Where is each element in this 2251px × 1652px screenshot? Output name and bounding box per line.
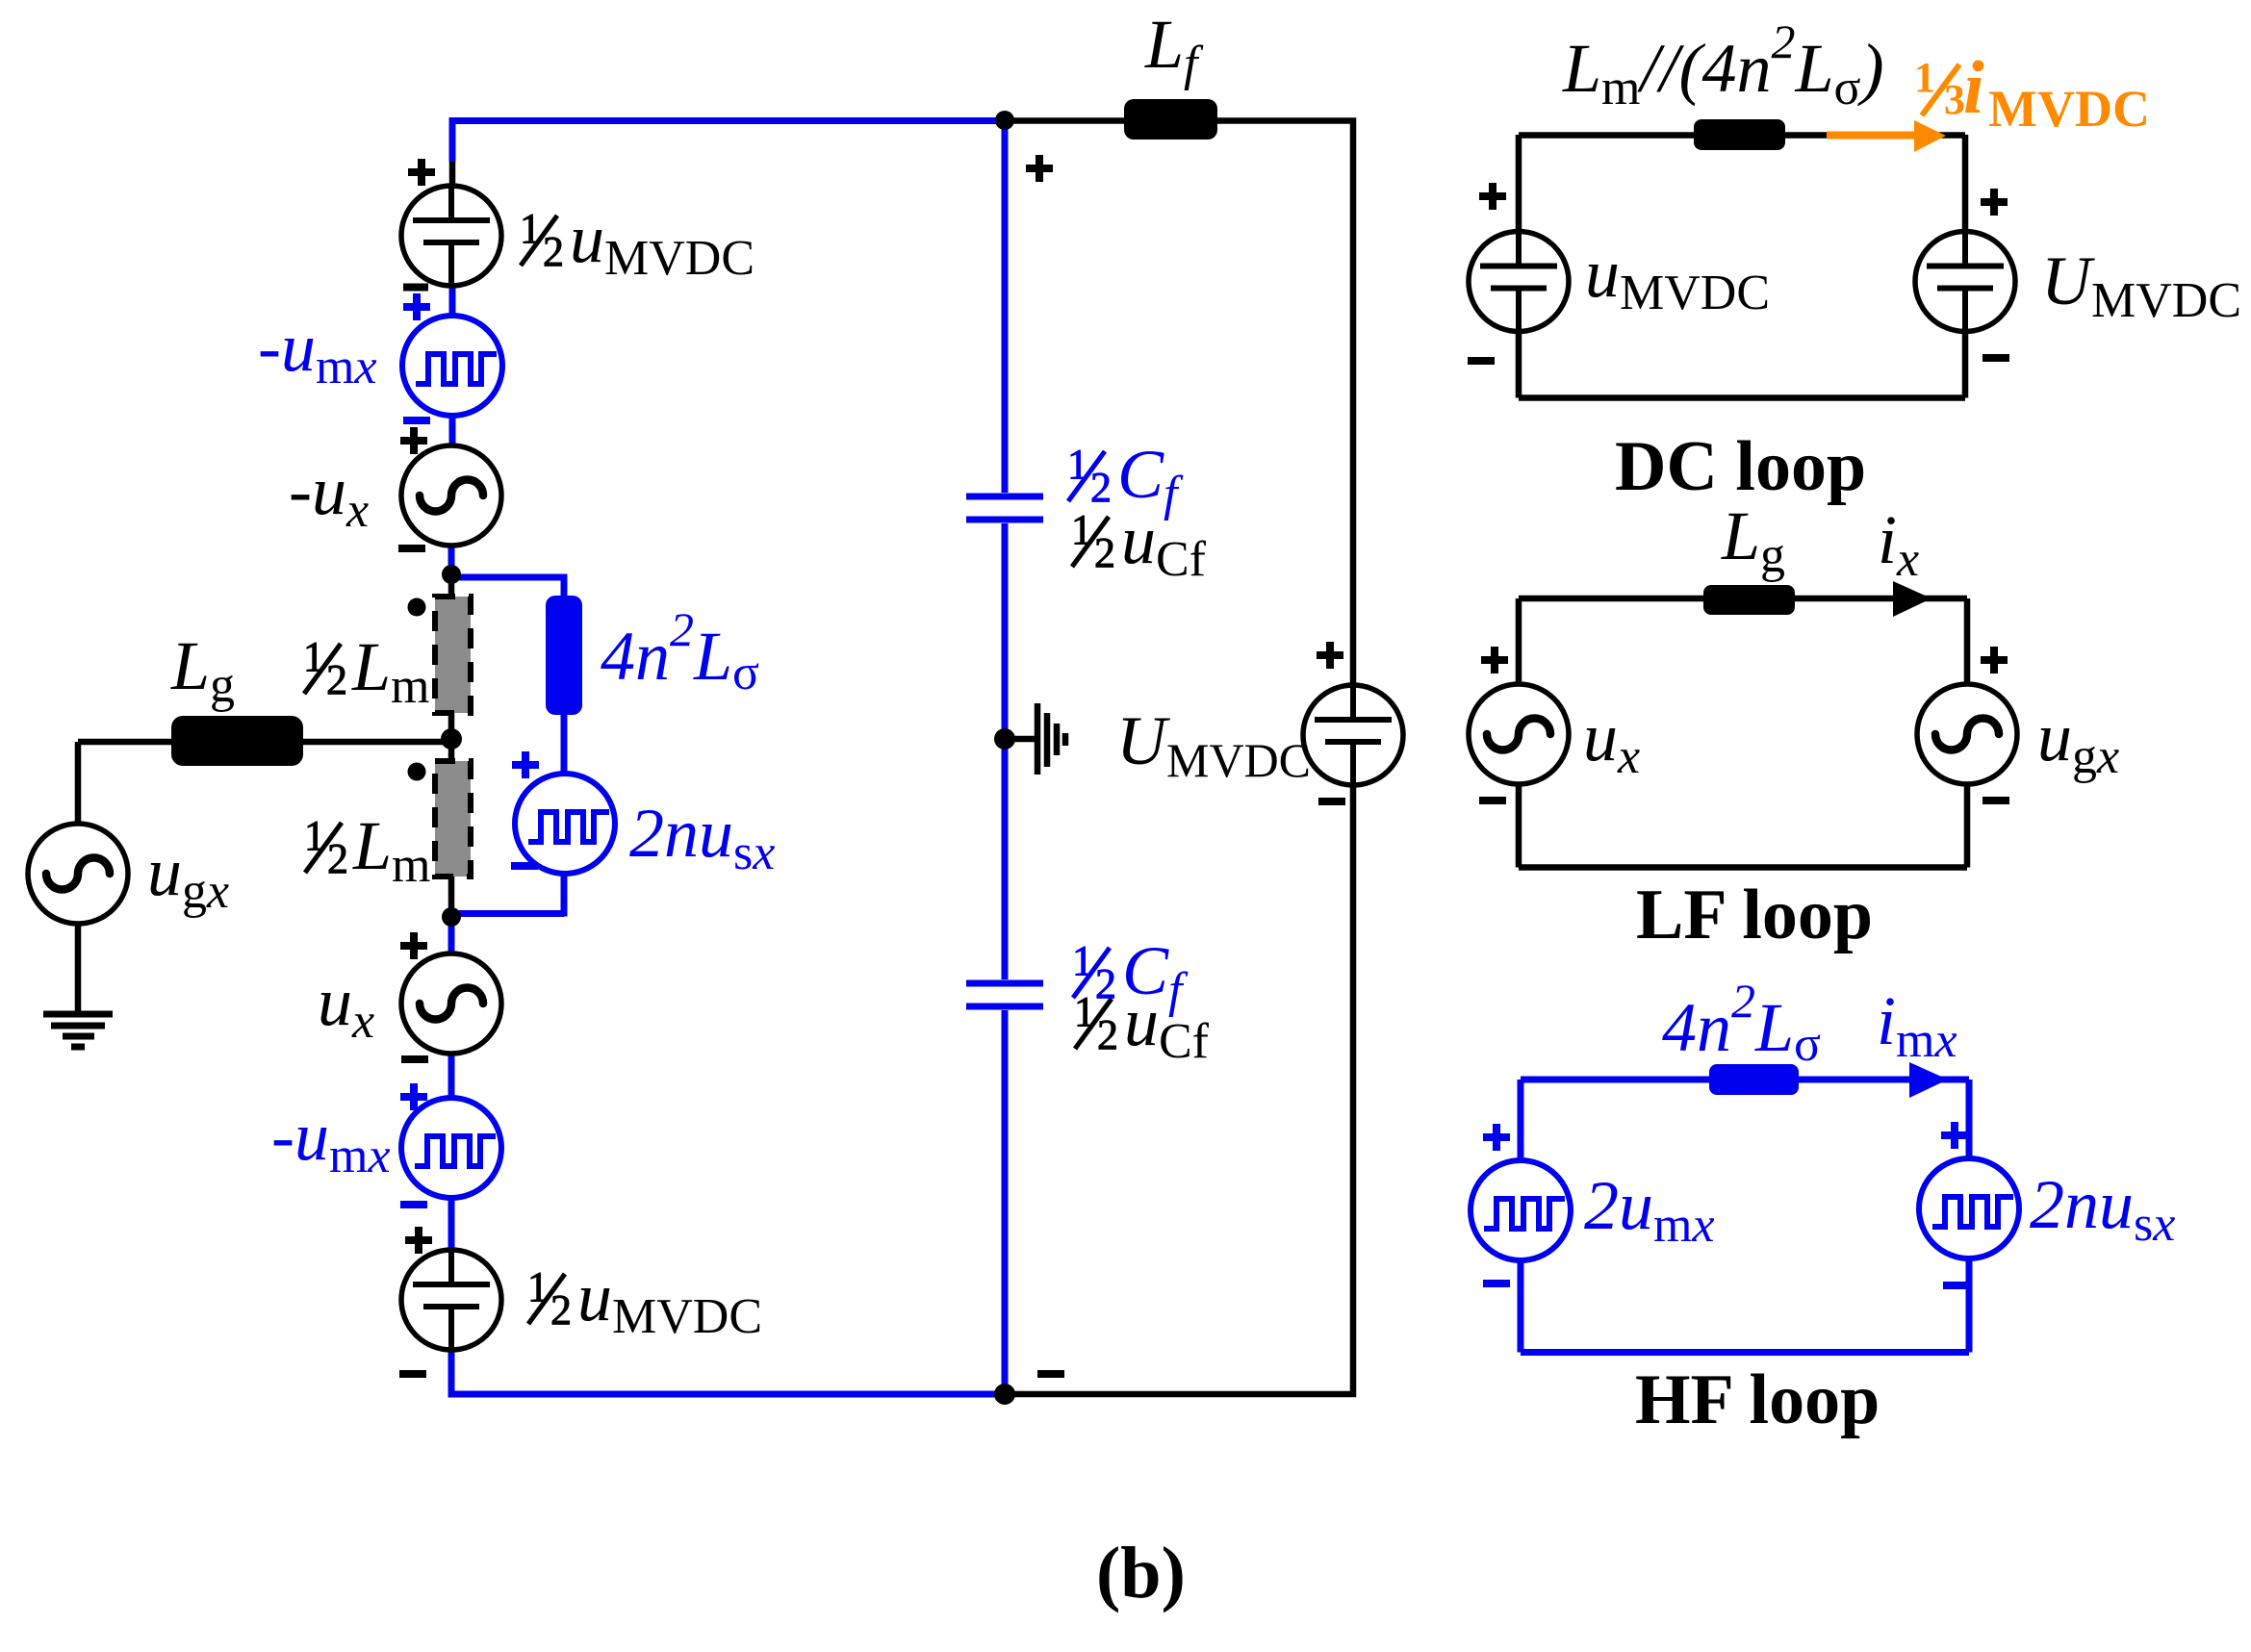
svg-text:2nusx: 2nusx [2030, 1166, 2175, 1252]
svg-text:-ux: -ux [289, 452, 369, 538]
svg-text:-umx: -umx [271, 1098, 391, 1183]
svg-text:4n2Lσ: 4n2Lσ [601, 602, 759, 700]
svg-text:Cf: Cf [1122, 932, 1189, 1018]
svg-text:uMVDC: uMVDC [570, 200, 755, 286]
svg-text:imx: imx [1877, 982, 1957, 1068]
svg-text:UMVDC: UMVDC [1116, 702, 1311, 787]
svg-text:HF loop: HF loop [1635, 1360, 1880, 1439]
svg-text:Lm//(4n2Lσ): Lm//(4n2Lσ) [1562, 14, 1884, 115]
svg-text:ugx: ugx [2037, 699, 2119, 784]
svg-text:2nusx: 2nusx [629, 795, 775, 880]
svg-text:-umx: -umx [258, 309, 377, 394]
svg-text:LF loop: LF loop [1636, 876, 1873, 954]
svg-text:2umx: 2umx [1584, 1167, 1715, 1253]
svg-text:ugx: ugx [147, 833, 229, 919]
svg-text:ix: ix [1878, 501, 1919, 587]
svg-text:UMVDC: UMVDC [2041, 242, 2241, 328]
svg-text:MVDC: MVDC [1988, 80, 2150, 138]
svg-text:(b): (b) [1096, 1533, 1186, 1614]
svg-text:DC loop: DC loop [1615, 427, 1866, 506]
svg-text:i: i [1963, 45, 1984, 129]
svg-text:Lm: Lm [351, 628, 430, 714]
svg-text:uMVDC: uMVDC [1585, 235, 1770, 320]
svg-text:uMVDC: uMVDC [577, 1258, 762, 1344]
svg-text:Lf: Lf [1144, 6, 1204, 91]
svg-text:ux: ux [1583, 699, 1640, 784]
svg-text:1: 1 [1914, 54, 1935, 101]
svg-text:Lg: Lg [170, 627, 235, 713]
svg-text:3: 3 [1944, 76, 1965, 123]
svg-text:4n2Lσ: 4n2Lσ [1662, 974, 1821, 1072]
svg-text:Lg: Lg [1721, 497, 1785, 583]
svg-text:Cf: Cf [1117, 436, 1184, 521]
svg-text:Lm: Lm [352, 807, 431, 893]
svg-text:ux: ux [318, 963, 374, 1049]
